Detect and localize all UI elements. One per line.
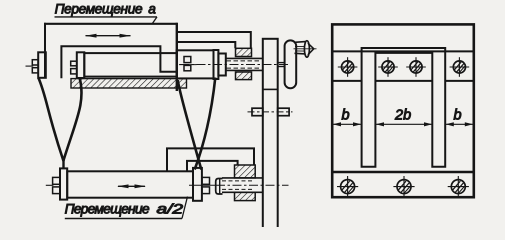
- dimension 2b (middle): [376, 123, 432, 125]
- crank axle nub: [278, 62, 285, 64]
- underline of bottom label: [65, 218, 182, 220]
- lower bearing block (hatched): [235, 165, 256, 178]
- crank knob tip: [308, 43, 314, 55]
- lower left tabs: [53, 177, 60, 184]
- svg-text:а: а: [148, 1, 156, 16]
- leader line to carriage: [152, 17, 157, 24]
- dimension b (right): [446, 123, 473, 125]
- lower yoke outer: [167, 148, 254, 171]
- upper shaft hidden lines: [227, 60, 262, 62]
- tab centerline: [248, 111, 293, 113]
- crank knob body: [295, 41, 306, 44]
- svg-text:а/2: а/2: [157, 201, 184, 216]
- lower roller right cap: [193, 168, 202, 201]
- screw row1 #3: [406, 57, 426, 77]
- plate joint line: [263, 88, 278, 90]
- upper roller left tabs: [71, 61, 77, 66]
- cap1 centerline stub: [26, 65, 34, 67]
- screw row2 #3: [448, 176, 469, 197]
- lower yoke inner: [187, 161, 238, 171]
- hatched guide strip under upper roller: [71, 79, 187, 88]
- crank grip: [285, 40, 297, 88]
- displacement arrow a (double headed): [86, 35, 131, 37]
- leader to lower roller: [182, 197, 188, 219]
- bottom band line: [332, 171, 474, 173]
- upper shaft centerline: [180, 64, 290, 66]
- sleeve end cap: [214, 50, 219, 79]
- upper bearing block (hatched): [236, 48, 252, 56]
- lower left centerline stub: [46, 184, 54, 186]
- cap1 adjuster tabs: [32, 60, 38, 65]
- lower shaft centerline: [216, 184, 289, 186]
- hidden screw dashes: [222, 180, 255, 182]
- underline of top label: [55, 16, 158, 18]
- screw band bottom line segments: [332, 80, 361, 82]
- lower shaft: [222, 177, 262, 179]
- lower roller left cap: [60, 168, 67, 199]
- carriage left leg: [44, 23, 46, 78]
- carriage right leg: [176, 23, 178, 91]
- svg-text:b: b: [454, 108, 462, 124]
- screw head (slotted): [216, 179, 223, 195]
- upper roller left journal cap (on carriage leg): [38, 52, 46, 78]
- screws row 1: [338, 57, 358, 77]
- left belt run: [39, 78, 64, 161]
- screw row2 #2: [393, 176, 414, 197]
- screw row1 #4: [450, 57, 470, 77]
- slotted U channel: [362, 48, 446, 167]
- support plate (vertical bar): [263, 39, 278, 229]
- panel outer frame: [332, 24, 474, 197]
- crank knob end ellipse: [304, 41, 309, 57]
- upper connecting arm inner: [177, 42, 236, 48]
- svg-text:Перемещение: Перемещение: [55, 1, 143, 16]
- svg-text:b: b: [342, 108, 350, 124]
- sleeve tab centerline: [179, 64, 197, 66]
- plate cross tab right: [278, 108, 289, 116]
- belt tail to lower pulley: [62, 159, 64, 169]
- upper roller body: [84, 53, 176, 77]
- dimension b (left): [333, 123, 361, 125]
- inner frame around upper roller: [61, 46, 176, 78]
- displacement arrow a/2: [118, 185, 145, 187]
- screws row 2: [337, 176, 358, 197]
- upper roller left end cap: [77, 52, 85, 78]
- lower roller body: [67, 171, 193, 197]
- svg-text:2b: 2b: [394, 108, 411, 124]
- sleeve cylinder right of carriage leg: [177, 50, 214, 78]
- panel top band line: [332, 50, 474, 52]
- carriage top bar: [44, 23, 178, 25]
- right belt run: [178, 80, 202, 170]
- knob centerline: [294, 48, 317, 50]
- sleeve inner screw tabs: [184, 57, 191, 63]
- upper shaft: [226, 57, 262, 59]
- plate cross tab left: [252, 108, 263, 116]
- svg-text:Перемещение: Перемещение: [65, 201, 150, 216]
- screw row1 #2: [378, 57, 398, 77]
- upper connecting arm outer: [177, 32, 251, 48]
- lower right tabs: [202, 177, 210, 184]
- shaft flange: [218, 54, 225, 76]
- lower shaft centerline (solid through tabs): [189, 184, 216, 186]
